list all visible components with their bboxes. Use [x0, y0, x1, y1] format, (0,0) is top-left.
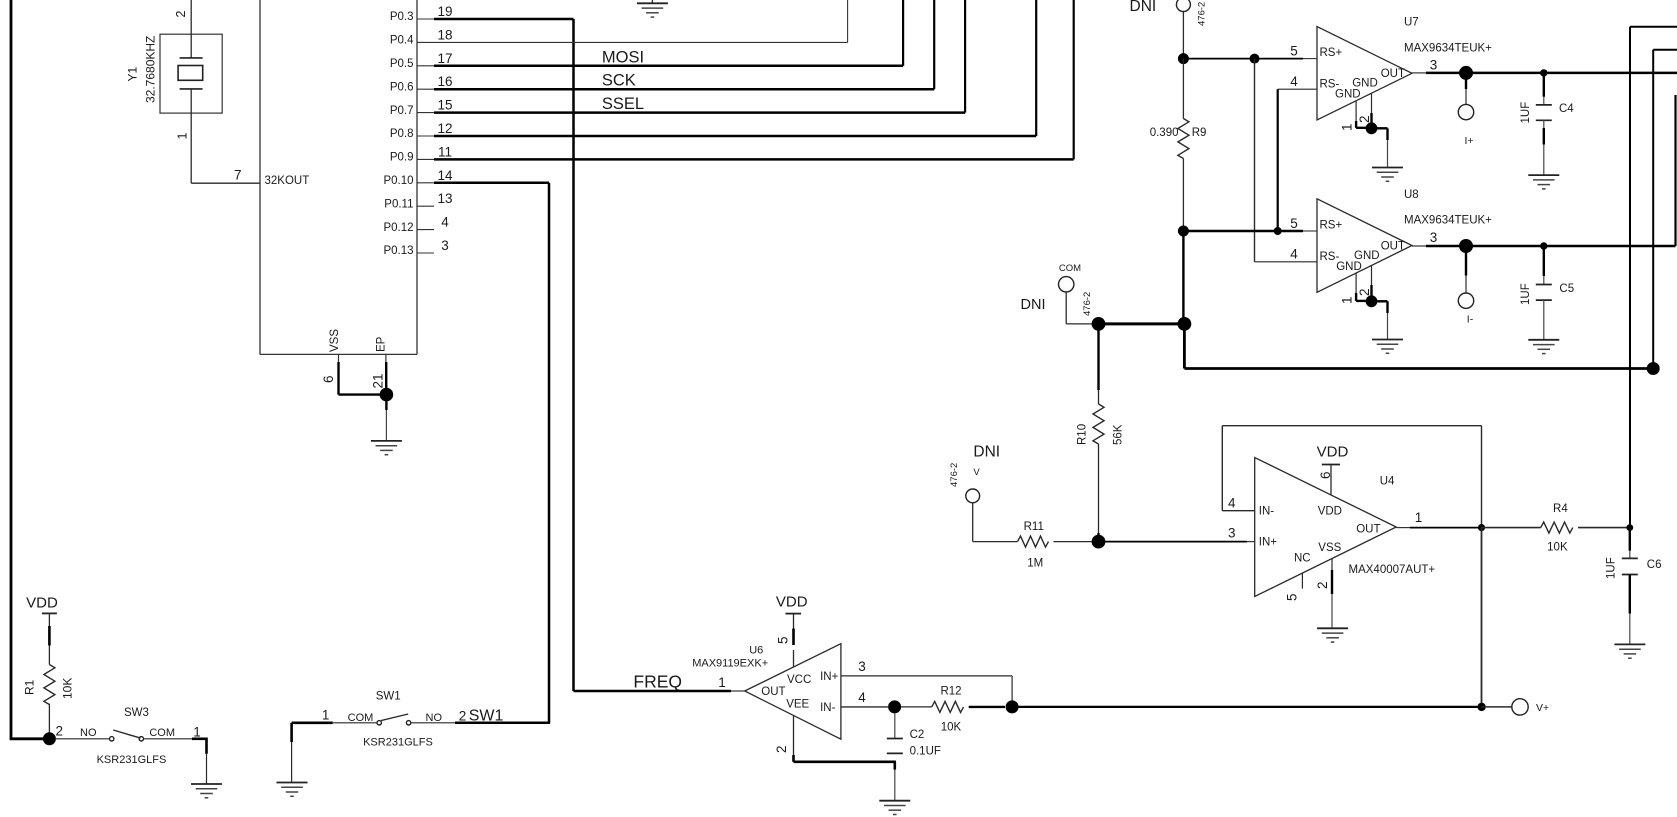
- net label DNI (COM): [1021, 297, 1046, 313]
- wire R9 net down to COM bus: [1182, 231, 1184, 324]
- junction U8 OUT / C5: [1540, 242, 1547, 249]
- svg-text:IN+: IN+: [820, 671, 839, 683]
- net label I-: [1467, 314, 1474, 326]
- svg-text:P0.9: P0.9: [390, 152, 414, 164]
- svg-text:R1: R1: [22, 679, 36, 695]
- svg-text:OUT: OUT: [1381, 240, 1405, 252]
- testpoint TP (R11): [966, 489, 980, 503]
- resistor R11: [1018, 536, 1049, 547]
- net label SSEL: [602, 95, 644, 113]
- capacitor C5: [1536, 246, 1552, 340]
- wire R9 top: [1182, 59, 1184, 119]
- wire IN+ node to U4: [1099, 541, 1255, 543]
- junction VSS/EP: [380, 388, 394, 402]
- crystal Y1 symbol: [178, 58, 203, 89]
- svg-text:I+: I+: [1464, 135, 1473, 147]
- pin name VEE (U6): [786, 698, 809, 710]
- pin NC stub (U4 pin 5): [1301, 573, 1303, 589]
- pin number 1 (SW3): [193, 725, 201, 740]
- pin name GND (U7 lower): [1335, 89, 1361, 101]
- wire U7 GND pin 1: [1356, 101, 1366, 128]
- pin stub P0.8: [417, 135, 434, 137]
- wire SW3 COM to ground: [144, 738, 207, 785]
- pin number 3 (U8 OUT): [1430, 230, 1438, 245]
- svg-text:2: 2: [459, 709, 467, 724]
- svg-text:2: 2: [56, 724, 64, 739]
- svg-text:C5: C5: [1559, 283, 1574, 295]
- svg-text:12: 12: [437, 121, 452, 136]
- part number MAX9119EXK+: [692, 658, 768, 670]
- resistor R12: [932, 701, 964, 712]
- pin stub P0.9: [417, 158, 434, 160]
- wire U6 IN+ pin 3 to R12 right node: [841, 676, 1012, 707]
- part number MAX40007AUT+: [1349, 564, 1436, 576]
- label R10: [1077, 424, 1089, 445]
- wire to I+ testpoint: [1465, 73, 1467, 105]
- svg-text:476-2: 476-2: [949, 463, 960, 487]
- pin number 4 (U7 RS-): [1290, 74, 1298, 89]
- ground (C6): [1614, 644, 1645, 658]
- switch SW1: [377, 714, 411, 725]
- pin name RS+ (U8): [1320, 220, 1343, 232]
- svg-text:32.7680KHZ: 32.7680KHZ: [144, 36, 158, 103]
- svg-text:Y1: Y1: [125, 66, 139, 81]
- wire SW3 NO side: [56, 738, 110, 740]
- wire to V+ testpoint: [1482, 706, 1512, 708]
- label R1: [22, 679, 36, 695]
- junction bus / right vertical: [1647, 362, 1660, 375]
- part number KSR231GLFS (SW1): [363, 737, 433, 749]
- capacitor C4: [1536, 73, 1552, 175]
- svg-text:476-2: 476-2: [1082, 292, 1093, 316]
- resistor R4: [1541, 522, 1573, 533]
- testpoint TP (DNI top): [1176, 0, 1190, 12]
- value 476-2 (top testpoint): [1197, 2, 1208, 26]
- pin number 3 (U7 OUT): [1430, 58, 1438, 73]
- net label I+: [1464, 135, 1473, 147]
- net label DNI (top): [1130, 0, 1157, 15]
- svg-text:1M: 1M: [1027, 558, 1043, 570]
- wire P0.10 net to SW1: [434, 183, 549, 723]
- svg-text:IN-: IN-: [1259, 506, 1275, 518]
- pin number 3 (P0.13): [441, 238, 449, 253]
- pin stub P0.6: [417, 88, 434, 90]
- svg-text:6: 6: [1318, 471, 1333, 479]
- svg-text:IN-: IN-: [820, 702, 836, 714]
- svg-text:1UF: 1UF: [1520, 102, 1532, 124]
- wire bus down-right to right edge net: [1184, 324, 1653, 369]
- label C2: [910, 729, 925, 741]
- wire R1 to SW3 node: [48, 704, 50, 733]
- junction U8 RS+ / crossover: [1274, 227, 1282, 235]
- svg-text:1UF: 1UF: [1520, 283, 1532, 305]
- wire SW1 pin1 to ground: [290, 723, 293, 783]
- svg-text:R10: R10: [1077, 424, 1089, 445]
- pin number 2 (U6 VEE): [774, 745, 789, 753]
- wire to I- testpoint: [1465, 246, 1467, 293]
- pin number 1 (crystal): [176, 133, 190, 140]
- wire U6 VEE pin 2 to C2 ground: [794, 715, 896, 769]
- svg-text:P0.6: P0.6: [390, 81, 414, 93]
- svg-text:1: 1: [1340, 296, 1355, 304]
- svg-text:V+: V+: [1536, 702, 1549, 714]
- pin name VCC (U6): [787, 674, 811, 686]
- pin stub P0.5: [417, 65, 434, 67]
- svg-text:VDD: VDD: [1317, 444, 1349, 461]
- net label DNI (R11 testpoint): [973, 444, 1000, 461]
- junction R4/C6/right net: [1626, 524, 1633, 531]
- pin number 2 (U8 GND): [1357, 288, 1372, 296]
- svg-text:R9: R9: [1192, 127, 1207, 139]
- wire COM node to R10: [1097, 324, 1099, 404]
- svg-text:SW3: SW3: [124, 707, 149, 719]
- svg-text:DNI: DNI: [973, 444, 1000, 461]
- pin name NC (U4): [1294, 553, 1311, 565]
- svg-text:18: 18: [437, 27, 452, 42]
- junction RS+ row / R9: [1178, 53, 1189, 64]
- pin name P0.3: [390, 11, 414, 23]
- svg-text:1: 1: [176, 133, 190, 140]
- wire feedback U4 IN- to OUT: [1222, 426, 1481, 528]
- value 0.1UF (C2): [910, 745, 941, 757]
- svg-text:SCK: SCK: [602, 72, 636, 90]
- net label V (R11 testpoint): [973, 467, 980, 478]
- wire VSS to EP junction: [339, 393, 382, 395]
- junction COM bus / R9 net: [1178, 317, 1192, 331]
- pin name VSS: [329, 329, 341, 352]
- value 1UF (C4): [1520, 102, 1532, 124]
- pin name OUT (U7): [1381, 68, 1405, 80]
- wire R11 to IN+ node: [1054, 541, 1093, 543]
- pin name IN+ (U6): [820, 671, 839, 683]
- pin name P0.8: [390, 128, 414, 140]
- svg-text:C4: C4: [1559, 103, 1574, 115]
- svg-text:5: 5: [1290, 44, 1298, 59]
- svg-text:U7: U7: [1404, 17, 1419, 29]
- pin number 5 (U6 VCC): [776, 636, 791, 644]
- testpoint TP COM: [1059, 277, 1074, 292]
- wire R4 to C6 node: [1578, 527, 1630, 529]
- svg-text:0.1UF: 0.1UF: [910, 745, 941, 757]
- svg-text:1UF: 1UF: [1606, 557, 1618, 579]
- pin stub P0.4: [417, 41, 434, 43]
- testpoint I+: [1458, 104, 1473, 119]
- svg-text:P0.12: P0.12: [383, 222, 413, 234]
- svg-text:P0.8: P0.8: [390, 128, 414, 140]
- ground (C2): [879, 801, 910, 815]
- svg-text:SSEL: SSEL: [602, 95, 644, 113]
- svg-text:P0.7: P0.7: [390, 105, 414, 117]
- ground (U4): [1317, 628, 1348, 642]
- pin number 19 (P0.3): [437, 4, 452, 19]
- wire P0.4 net to page top: [434, 0, 848, 42]
- svg-text:DNI: DNI: [1130, 0, 1157, 15]
- svg-text:3: 3: [1430, 230, 1438, 245]
- wire R12 to junction: [969, 706, 1005, 708]
- testpoint I-: [1458, 293, 1473, 308]
- svg-text:11: 11: [438, 144, 452, 159]
- net label FREQ: [633, 672, 682, 692]
- label C4: [1559, 103, 1574, 115]
- wire U7 RS- to crossover: [1278, 88, 1317, 90]
- svg-text:MAX9119EXK+: MAX9119EXK+: [692, 658, 768, 670]
- svg-text:MOSI: MOSI: [602, 48, 644, 66]
- svg-text:4: 4: [441, 215, 449, 230]
- junction U8 OUT / I- tap: [1459, 239, 1473, 253]
- svg-text:FREQ: FREQ: [633, 672, 682, 692]
- value 1UF (C6): [1606, 557, 1618, 579]
- pin name RS- (U8): [1320, 251, 1340, 263]
- svg-text:14: 14: [437, 168, 453, 183]
- svg-text:10K: 10K: [941, 721, 962, 733]
- pin number 6 (U4 VDD): [1318, 471, 1333, 479]
- svg-text:21: 21: [370, 373, 385, 388]
- pin name P0.10: [383, 175, 413, 187]
- svg-text:KSR231GLFS: KSR231GLFS: [363, 737, 433, 749]
- pin stub P0.11: [417, 205, 434, 207]
- svg-text:DNI: DNI: [1021, 297, 1046, 313]
- svg-text:C2: C2: [910, 729, 925, 741]
- pin name P0.7: [390, 105, 414, 117]
- wire SCK net (P0.6): [434, 0, 934, 89]
- label R12: [940, 686, 961, 698]
- power symbol VDD (U6): [776, 593, 808, 613]
- pin label NO (SW3): [80, 727, 97, 739]
- svg-text:7: 7: [234, 168, 242, 183]
- svg-text:P0.11: P0.11: [384, 198, 413, 210]
- wire MOSI net (P0.5): [434, 0, 903, 66]
- value 10K (R12): [941, 721, 962, 733]
- ground (SW1): [277, 783, 308, 797]
- ground (top middle): [637, 3, 668, 17]
- resistor R1: [44, 665, 55, 705]
- junction U4 OUT / feedback: [1478, 524, 1485, 531]
- svg-text:P0.10: P0.10: [383, 175, 413, 187]
- switch SW3: [110, 730, 144, 741]
- pin VSS stub: [338, 354, 340, 394]
- svg-text:2: 2: [1315, 581, 1330, 589]
- net label SCK: [602, 72, 636, 90]
- op-amp U6 (comparator, MAX9119): [745, 644, 841, 740]
- pin number 5 (U8 RS+): [1290, 216, 1298, 231]
- wire stub from page top to ground: [651, 0, 653, 3]
- junction U7 GND pins: [1366, 122, 1378, 134]
- svg-text:2: 2: [1357, 288, 1372, 296]
- pin number 14 (P0.10): [437, 168, 453, 183]
- wire EP junction to ground: [385, 395, 387, 441]
- pin number 6 (VSS): [321, 375, 336, 383]
- svg-text:U8: U8: [1404, 189, 1419, 201]
- svg-text:MAX40007AUT+: MAX40007AUT+: [1349, 564, 1436, 576]
- junction R1/SW3/border: [43, 732, 56, 745]
- svg-text:2: 2: [174, 11, 188, 18]
- svg-text:1: 1: [1340, 123, 1355, 131]
- junction IN-/C2: [888, 700, 901, 713]
- pin name RS- (U7): [1320, 79, 1340, 91]
- junction V+ row / feedback vertical: [1477, 528, 1485, 712]
- svg-text:P0.5: P0.5: [390, 58, 414, 70]
- pin number 1 (U4 OUT): [1415, 510, 1423, 525]
- svg-text:EP: EP: [376, 336, 388, 352]
- wire SSEL net (P0.7): [434, 0, 965, 113]
- svg-text:OUT: OUT: [1356, 524, 1380, 536]
- pin name IN- (U6): [820, 702, 836, 714]
- wire U7 GND pin 2: [1371, 93, 1373, 128]
- value 56K (R10): [1113, 424, 1125, 445]
- pin stub P0.13: [417, 252, 434, 254]
- net label COM (testpoint): [1059, 263, 1081, 274]
- pin label COM (SW3): [149, 727, 175, 739]
- value 32.7680KHZ: [144, 36, 158, 103]
- svg-text:P0.13: P0.13: [383, 245, 413, 257]
- pin number 15 (P0.7): [437, 98, 452, 113]
- pin stub P0.7: [417, 112, 434, 114]
- svg-text:OUT: OUT: [1381, 68, 1405, 80]
- wire C2 node to R12: [901, 706, 932, 708]
- svg-text:IN+: IN+: [1259, 537, 1278, 549]
- wire U4 VSS pin 2 to ground: [1331, 559, 1333, 629]
- svg-text:16: 16: [437, 74, 452, 89]
- svg-text:COM: COM: [149, 727, 175, 739]
- junction U8 GND pins: [1366, 295, 1378, 307]
- ground (IC VSS/EP): [371, 441, 402, 455]
- value 10K (R1): [61, 678, 75, 699]
- label C5: [1559, 283, 1574, 295]
- pin name IN- (U4): [1259, 506, 1275, 518]
- svg-text:2: 2: [774, 745, 789, 753]
- pin number 2 (crystal): [174, 11, 188, 18]
- svg-text:MAX9634TEUK+: MAX9634TEUK+: [1404, 43, 1492, 55]
- pin number 3 (U4 IN+): [1228, 526, 1236, 541]
- svg-text:VSS: VSS: [329, 329, 341, 352]
- pin name GND (U8 upper): [1354, 250, 1380, 262]
- pin name OUT (U4): [1356, 524, 1380, 536]
- pin name EP: [376, 336, 388, 352]
- wire U6 IN- pin 4 to C2 node: [841, 706, 888, 708]
- label Y1: [125, 66, 139, 81]
- wire U8 GND pin 2: [1371, 266, 1373, 302]
- svg-text:3: 3: [1228, 526, 1236, 541]
- pin number 1 (U7 GND): [1340, 123, 1355, 131]
- svg-text:GND: GND: [1336, 261, 1362, 273]
- op-amp U7 (current sense MAX9634): [1317, 27, 1412, 120]
- svg-text:VCC: VCC: [787, 674, 811, 686]
- svg-text:C6: C6: [1647, 559, 1662, 571]
- crystal Y1 box outline: [160, 34, 222, 113]
- svg-text:RS+: RS+: [1320, 220, 1343, 232]
- power symbol VDD (U4): [1317, 444, 1349, 465]
- wire off-page right (lower) to COM bus: [1653, 50, 1677, 369]
- svg-text:I-: I-: [1467, 314, 1474, 326]
- pin number 21 (EP): [370, 373, 385, 388]
- wire U4 OUT to R4: [1396, 527, 1481, 529]
- pin EP stub: [385, 354, 387, 394]
- pin name P0.12: [383, 222, 413, 234]
- value 0.390 (R9): [1150, 127, 1179, 139]
- wire VDD to U4 pin 6: [1330, 465, 1332, 496]
- ground (U8): [1372, 340, 1403, 354]
- wire SW1 COM side: [292, 721, 377, 724]
- svg-text:OUT: OUT: [761, 686, 785, 698]
- svg-text:SW1: SW1: [376, 691, 401, 703]
- pin name P0.11: [384, 198, 413, 210]
- pin name VSS (U4 inner): [1318, 542, 1341, 554]
- testpoint V+: [1512, 699, 1528, 715]
- pin number 4 (P0.12): [441, 215, 449, 230]
- svg-text:10K: 10K: [61, 678, 75, 699]
- wire VDD net from page edge (left vertical): [10, 0, 46, 739]
- svg-text:4: 4: [1228, 496, 1236, 511]
- wire off-page right (upper) to R4/C6 node: [1630, 27, 1677, 528]
- svg-text:COM: COM: [1059, 263, 1081, 274]
- pin name 32KOUT: [265, 175, 310, 187]
- svg-text:4: 4: [1290, 247, 1298, 262]
- pin number 13 (P0.11): [437, 191, 452, 206]
- svg-text:VDD: VDD: [26, 595, 58, 612]
- svg-text:17: 17: [437, 51, 452, 66]
- wire testpoint to RS+ node: [1182, 12, 1184, 59]
- wire U7 OUT to right edge: [1412, 72, 1677, 74]
- pin name OUT (U8): [1381, 240, 1405, 252]
- svg-text:2: 2: [1357, 115, 1372, 123]
- net label V+: [1536, 702, 1549, 714]
- wire COM testpoint to bus: [1066, 292, 1092, 324]
- pin number 5 (U4 NC): [1285, 593, 1300, 601]
- wire crystal pin 2 from top: [190, 0, 192, 58]
- wire P0.3 net to FREQ bus: [434, 19, 574, 691]
- junction COM bus / R10: [1092, 317, 1106, 331]
- svg-text:10K: 10K: [1547, 542, 1568, 554]
- junction R12/IN+: [1006, 700, 1019, 713]
- svg-text:1: 1: [718, 675, 726, 690]
- pin number 1 (U6 OUT): [718, 675, 726, 690]
- svg-text:R12: R12: [940, 686, 961, 698]
- value 1M (R11): [1027, 558, 1043, 570]
- pin name VDD (U4 inner): [1318, 506, 1342, 518]
- svg-text:3: 3: [441, 238, 449, 253]
- part number MAX9634TEUK+ (U7): [1404, 43, 1492, 55]
- svg-text:15: 15: [437, 98, 452, 113]
- pin name GND (U8 lower): [1336, 261, 1362, 273]
- svg-text:56K: 56K: [1113, 424, 1125, 445]
- pin number 2 (U7 GND): [1357, 115, 1372, 123]
- pin number 4 (U8 RS-): [1290, 247, 1298, 262]
- wire U8 RS+ row: [1183, 230, 1317, 232]
- label U8: [1404, 189, 1419, 201]
- svg-text:NC: NC: [1294, 553, 1311, 565]
- ground (C5): [1528, 340, 1559, 354]
- junction U7 RS+ / crossover: [1250, 54, 1260, 64]
- pin name RS+ (U7): [1320, 47, 1343, 59]
- pin name P0.5: [390, 58, 414, 70]
- pin number 16 (P0.6): [437, 74, 452, 89]
- pin number 4 (U6 IN-): [858, 690, 866, 705]
- wire R9 bottom to U8 RS+ row: [1182, 159, 1184, 232]
- svg-text:P0.4: P0.4: [390, 35, 414, 47]
- IC U1 outline (partial): [260, 0, 417, 354]
- op-amp U4 (MAX40007): [1255, 458, 1397, 597]
- power symbol VDD (R1): [26, 595, 58, 614]
- svg-text:19: 19: [437, 4, 452, 19]
- wire P0.8 net: [434, 0, 1036, 136]
- svg-text:VDD: VDD: [1318, 506, 1342, 518]
- svg-text:5: 5: [1285, 593, 1300, 601]
- pin number 4 (U4 IN-): [1228, 496, 1236, 511]
- pin number 3 (U6 IN+): [858, 659, 866, 674]
- wire crystal pin 1 to IC pin 7: [191, 89, 260, 183]
- value 476-2 (R11 testpoint): [949, 463, 960, 487]
- svg-text:32KOUT: 32KOUT: [265, 175, 310, 187]
